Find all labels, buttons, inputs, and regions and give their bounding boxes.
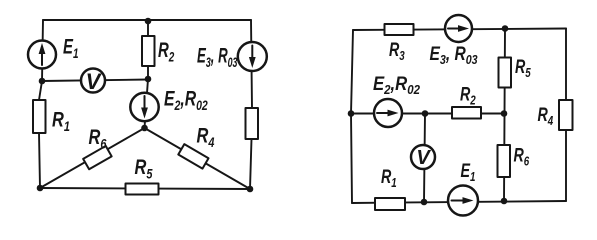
svg-text:E2,R02: E2,R02: [373, 73, 420, 97]
resistor R2 (right circuit): [452, 107, 481, 119]
EMF source E2,R02 (right circuit): [374, 99, 402, 127]
resistor R1: [33, 100, 46, 133]
wire E2 branch: [145, 79, 149, 128]
svg-text:E1: E1: [461, 160, 476, 184]
resistor R6: [83, 146, 112, 169]
svg-text:R4: R4: [197, 124, 215, 151]
EMF source E1: [28, 41, 56, 69]
label R1: [52, 108, 70, 135]
resistor R6 (right circuit): [498, 145, 511, 177]
label E2,R02: [164, 86, 208, 113]
resistor R4: [178, 144, 208, 168]
node top junction: [145, 18, 152, 25]
wire middle vertical: [504, 29, 505, 202]
svg-text:R5: R5: [135, 155, 154, 182]
EMF source E1 (right circuit): [448, 186, 478, 216]
node E2/R2 junction (right circuit): [422, 110, 429, 117]
label R5: [135, 155, 154, 182]
wire left circuit left vertical: [39, 20, 43, 188]
node bottom-left: [37, 185, 44, 192]
svg-text:R1: R1: [52, 108, 70, 135]
node top middle junction (right circuit): [502, 25, 509, 32]
wire left circuit right vertical: [250, 20, 252, 189]
EMF source E3,R03: [238, 42, 267, 71]
resistor (unlabeled right branch): [246, 108, 259, 139]
label E3,R03 (right circuit): [430, 43, 478, 68]
svg-text:R5: R5: [515, 56, 531, 80]
node bottom-right: [247, 186, 254, 193]
wire left circuit top: [43, 19, 251, 21]
label R2 (right circuit): [460, 84, 476, 108]
svg-text:R4: R4: [538, 104, 554, 128]
svg-text:E1: E1: [63, 35, 79, 61]
node R2/middle vertical junction (right circuit): [501, 110, 508, 117]
label R5 (right circuit): [515, 56, 531, 80]
wire E2 row: [351, 113, 425, 115]
wire right circuit left vertical: [351, 30, 353, 203]
label E1: [63, 35, 79, 61]
svg-text:R2: R2: [460, 84, 476, 108]
svg-text:R6: R6: [514, 145, 530, 169]
resistor R5: [126, 184, 159, 195]
wire right circuit bottom: [352, 201, 566, 203]
wire right circuit top: [353, 29, 566, 31]
svg-text:R6: R6: [89, 125, 108, 152]
wire R2 row: [425, 113, 504, 115]
svg-text:E2,R02: E2,R02: [164, 86, 208, 113]
svg-text:E3, R03: E3, R03: [197, 43, 238, 70]
label R6 (right circuit): [514, 145, 530, 169]
node left mid junction: [39, 78, 46, 85]
resistor R4 (right circuit): [559, 100, 573, 130]
wire left circuit bottom: [40, 188, 250, 189]
voltmeter V (right circuit): [411, 145, 435, 169]
label E3,R03: [197, 43, 238, 70]
node bottom middle junction (right circuit): [501, 198, 508, 205]
resistor R3: [385, 24, 414, 35]
wire left circuit voltmeter branch: [42, 80, 148, 82]
label R2: [158, 39, 175, 65]
wire right circuit right vertical: [565, 29, 567, 202]
resistor R5 (right circuit): [499, 58, 512, 88]
EMF source E2,R02: [130, 93, 158, 121]
node R2 bottom junction: [145, 76, 152, 83]
label R4: [197, 124, 215, 151]
resistor R1 (right circuit): [375, 198, 405, 210]
svg-text:V: V: [86, 69, 103, 94]
label E1 (right circuit): [461, 160, 476, 184]
node E2 row left (right circuit): [348, 110, 355, 117]
node bottom voltmeter junction (right circuit): [421, 199, 428, 206]
label E2,R02 (right circuit): [373, 73, 420, 97]
wire diagonal R6: [40, 128, 145, 188]
svg-text:R2: R2: [158, 39, 175, 65]
resistor R2: [142, 36, 155, 66]
EMF source E3 (right circuit): [445, 15, 472, 42]
svg-text:E3, R03: E3, R03: [430, 43, 478, 68]
wire diagonal R4: [145, 128, 251, 189]
label R1 (right circuit): [381, 166, 397, 190]
wire voltmeter branch (right circuit): [424, 114, 425, 203]
label R6: [89, 125, 108, 152]
node center (below E2): [141, 125, 148, 132]
voltmeter V (left circuit): [81, 69, 105, 95]
svg-text:V: V: [416, 147, 431, 169]
wire R2 branch: [147, 21, 149, 79]
svg-text:R1: R1: [381, 166, 397, 190]
svg-text:R3: R3: [389, 39, 405, 63]
label R4 (right circuit): [538, 104, 554, 128]
label R3: [389, 39, 405, 63]
